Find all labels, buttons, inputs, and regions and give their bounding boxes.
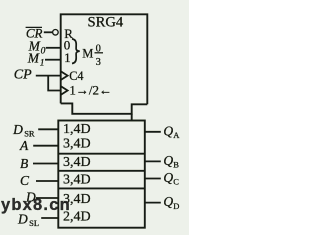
- svg-text:Q: Q: [163, 153, 173, 168]
- svg-text:M: M: [82, 47, 93, 61]
- svg-text:Q: Q: [163, 170, 173, 185]
- svg-text:0: 0: [96, 43, 101, 54]
- svg-text:CP: CP: [14, 68, 32, 83]
- svg-text:C: C: [20, 173, 30, 188]
- svg-text:B: B: [20, 156, 28, 171]
- svg-text:C: C: [173, 177, 179, 187]
- svg-text:1,4D: 1,4D: [63, 122, 91, 137]
- svg-text:A: A: [173, 130, 180, 140]
- svg-text:3,4D: 3,4D: [63, 155, 91, 170]
- svg-text:Q: Q: [163, 194, 173, 209]
- svg-text:A: A: [19, 138, 29, 153]
- svg-text:B: B: [173, 160, 179, 170]
- svg-text:1→/2←: 1→/2←: [69, 83, 112, 98]
- svg-text:D: D: [173, 201, 179, 211]
- svg-text:D: D: [12, 122, 23, 137]
- svg-text:1: 1: [40, 59, 45, 69]
- svg-text:SL: SL: [29, 218, 39, 228]
- svg-text:3,4D: 3,4D: [63, 173, 91, 188]
- svg-text:C4: C4: [69, 69, 83, 83]
- svg-text:M: M: [27, 51, 40, 66]
- svg-text:3: 3: [96, 57, 101, 68]
- svg-text:0: 0: [41, 47, 46, 57]
- svg-text:Q: Q: [163, 123, 173, 138]
- svg-text:ybx8.cn: ybx8.cn: [1, 196, 71, 214]
- svg-text:SRG4: SRG4: [88, 15, 124, 31]
- svg-text:3,4D: 3,4D: [63, 137, 91, 152]
- svg-text:1: 1: [64, 50, 71, 65]
